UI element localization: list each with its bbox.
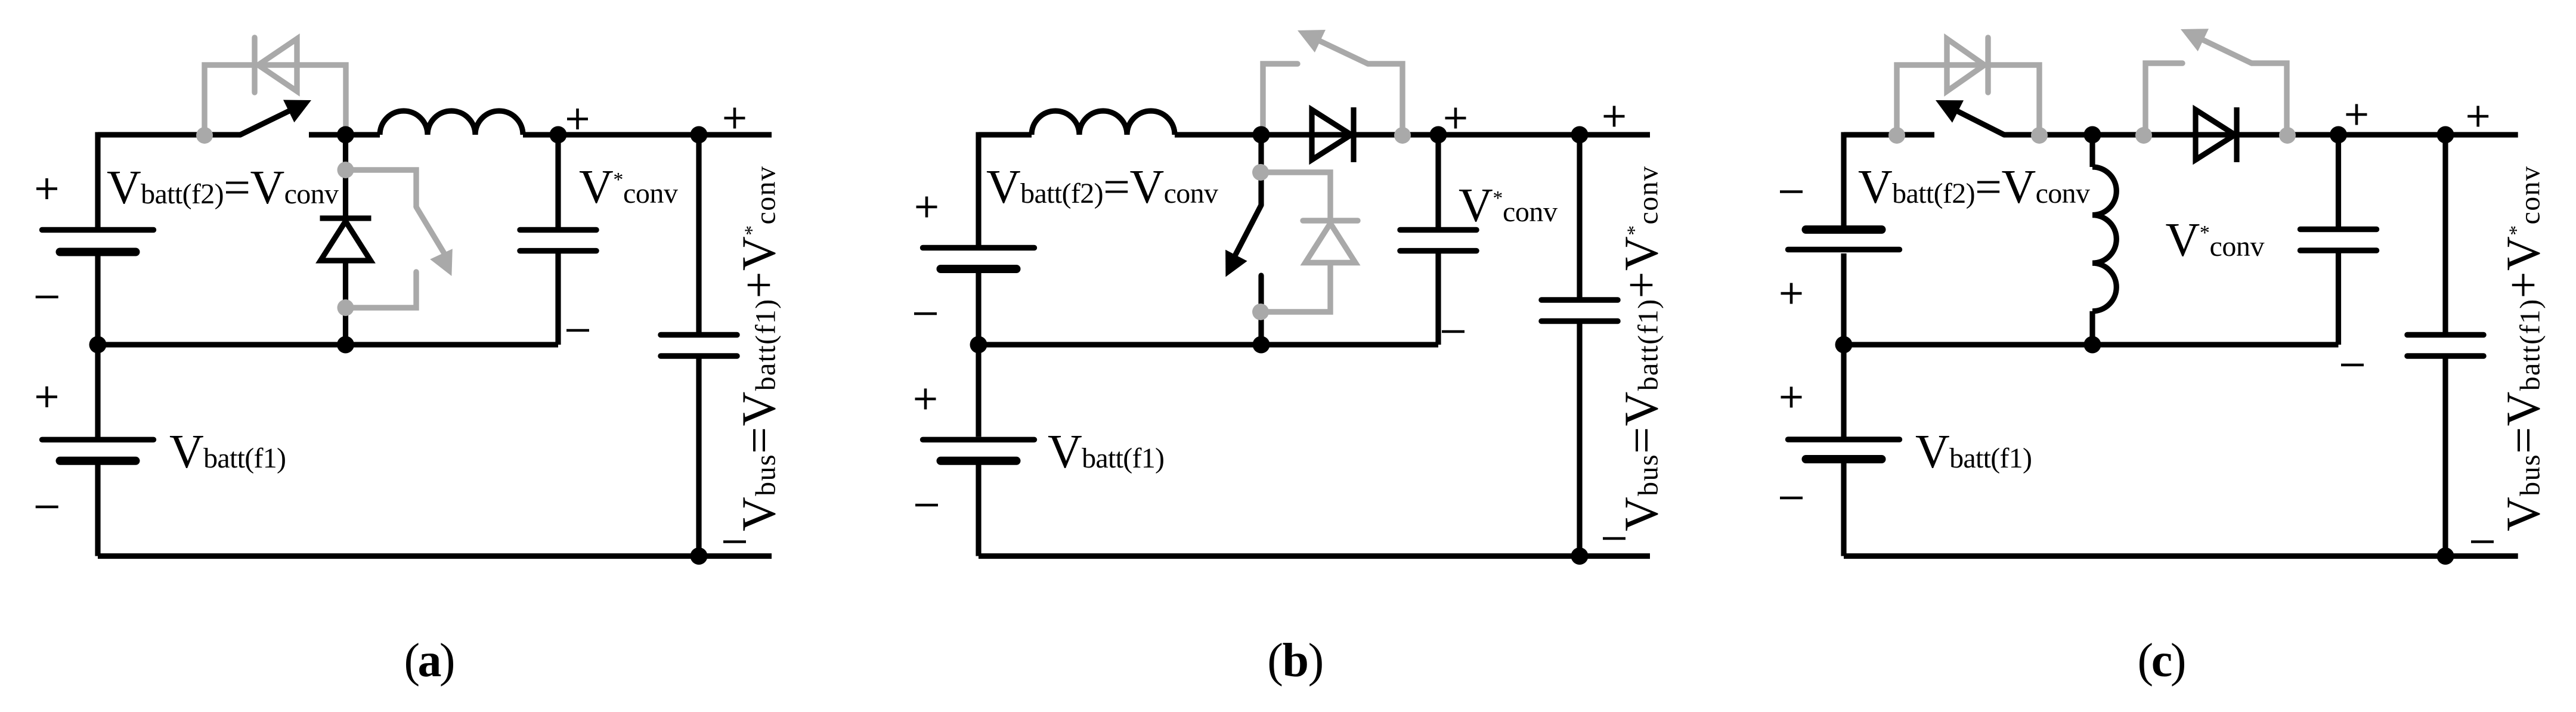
capacitor C1a top lead xyxy=(555,135,561,227)
battery B1f2 top lead wire xyxy=(95,135,100,228)
gray contact dot upper xyxy=(338,162,354,178)
node B1 rail left of diode xyxy=(1253,126,1270,144)
middle rail wire b xyxy=(979,342,1438,347)
diode branch wire upper xyxy=(343,135,348,218)
gray diode D2b lower wire xyxy=(1261,263,1330,312)
plus sign C1b xyxy=(1445,108,1466,129)
capacitor C1c plates xyxy=(2301,227,2377,233)
node A1 top of diode branch xyxy=(337,126,354,144)
minus sign battery B2f1 xyxy=(36,506,58,509)
gray switch S1b left wire xyxy=(1263,64,1298,135)
battery B2f1 bottom lead xyxy=(95,465,100,556)
gray diode D1c cathode bar xyxy=(1985,38,1990,92)
gray switch S2a blade and arrowhead xyxy=(416,207,446,256)
inductor L1c bottom stub xyxy=(2089,311,2095,345)
bus capacitor C2c bottom lead xyxy=(2442,358,2448,556)
gray contact dot lower xyxy=(338,299,354,316)
gray contact dot S2c left xyxy=(2135,127,2152,144)
battery B5f2 plates reversed xyxy=(1806,225,1882,234)
node C4 middle rail left xyxy=(1835,336,1853,354)
capacitor C1b top lead xyxy=(1435,135,1441,227)
bus capacitor C2a top lead xyxy=(696,135,701,332)
minus sign bus a xyxy=(723,540,746,543)
node A6 bus bottom xyxy=(691,547,708,565)
diode D1b cathode bar xyxy=(1351,107,1356,162)
battery B2f1 top lead xyxy=(95,345,100,437)
diode D1b triangle xyxy=(1312,110,1351,160)
minus sign battery B3f2 xyxy=(914,312,937,315)
inductor L1c xyxy=(2092,167,2116,311)
wire top rail right of inductor xyxy=(523,132,772,137)
diode D2c cathode bar xyxy=(2234,107,2239,162)
plus sign C1c xyxy=(2346,104,2367,125)
battery B2f1 plates xyxy=(42,437,154,442)
plus sign C1a xyxy=(567,109,588,129)
minus sign bus c xyxy=(2471,540,2494,543)
capacitor C1c top lead xyxy=(2336,135,2341,227)
gray diode D1a cathode bar xyxy=(252,38,257,92)
wire top rail left b xyxy=(979,132,1032,137)
gray contact dot S1b xyxy=(1394,127,1411,144)
gray switch S1b right wire xyxy=(1368,64,1402,135)
node A3 bus top xyxy=(691,126,708,144)
minus sign C1c xyxy=(2341,364,2364,367)
wire top rail left segment xyxy=(95,132,100,135)
bus capacitor C2b bottom lead xyxy=(1577,324,1582,556)
bus capacitor C2b plates xyxy=(1541,297,1618,303)
capacitor C1a plates xyxy=(520,227,596,233)
plus sign bus c xyxy=(2467,106,2488,127)
plus sign bus a xyxy=(724,108,745,129)
gray diode D1a bypass wire left xyxy=(205,65,346,135)
gray diode D1c triangle xyxy=(1947,39,1984,91)
battery B3f2 top lead xyxy=(976,132,981,246)
diode D2c triangle xyxy=(2196,110,2235,160)
gray contact dot on rail xyxy=(196,127,213,144)
svg-text:(b): (b) xyxy=(1267,634,1324,687)
gray contact dot lower b xyxy=(1252,304,1269,320)
node B3 bus top b xyxy=(1571,126,1589,144)
bus capacitor C2c plates xyxy=(2407,332,2484,338)
gray diode D1a triangle xyxy=(258,39,297,91)
minus sign C1a xyxy=(566,329,589,332)
inductor L1c top stub xyxy=(2089,135,2095,167)
node C5 middle rail inductor xyxy=(2084,336,2101,354)
diode D2a triangle xyxy=(321,221,371,261)
diode D2a cathode bar xyxy=(320,215,371,221)
node B6 bus bottom xyxy=(1571,547,1589,565)
svg-text:(c): (c) xyxy=(2138,634,2187,687)
battery B1f2 plates xyxy=(42,227,154,233)
node C3 bus top c xyxy=(2437,126,2454,144)
bottom rail wire c xyxy=(1844,553,2518,559)
minus sign battery B5f2 xyxy=(1780,190,1803,193)
wire top rail left c xyxy=(1844,132,1934,137)
plus sign battery B3f2 xyxy=(917,197,937,218)
battery B4f1 bottom lead xyxy=(976,465,981,556)
gray diode D1c bypass wire xyxy=(1897,65,2039,132)
node C6 bus bottom xyxy=(2437,547,2454,565)
minus sign C1b xyxy=(1442,330,1465,333)
gray contact dot D1c right xyxy=(2031,127,2048,144)
bottom rail wire a xyxy=(98,553,772,559)
battery B6f1 top lead xyxy=(1841,345,1846,437)
plus sign battery B4f1 xyxy=(915,389,936,410)
battery B6f1 bottom lead xyxy=(1841,463,1846,556)
gray contact dot D1c left xyxy=(1888,127,1905,144)
gray switch S2c left wire xyxy=(2145,63,2182,135)
plus sign battery B1f2 xyxy=(36,178,57,199)
battery B5f2 bottom lead xyxy=(1841,253,1846,345)
minus sign battery B6f1 xyxy=(1780,497,1803,500)
battery B1f2 bottom lead xyxy=(95,256,100,345)
node C1 inductor top xyxy=(2084,126,2101,144)
gray diode D2b triangle xyxy=(1305,224,1355,263)
gray diode D2b cathode bar xyxy=(1303,218,1358,223)
node B2 rail right of diode xyxy=(1430,126,1447,144)
battery B5f2 top lead xyxy=(1841,132,1846,226)
switch S2b upper wire xyxy=(1258,135,1264,205)
plus sign battery B2f1 xyxy=(36,386,57,407)
battery B4f1 top lead xyxy=(976,345,981,437)
node C2 cap top c xyxy=(2330,126,2347,144)
switch S1c blade and arrowhead xyxy=(1958,112,2005,135)
capacitor C1a bottom lead xyxy=(555,253,561,345)
node A5 middle rail diode xyxy=(337,336,354,354)
plus sign battery B5f2 xyxy=(1781,283,1802,304)
gray switch S1b blade and arrowhead xyxy=(1320,41,1368,64)
gray switch S2a lower wire xyxy=(346,272,417,308)
minus sign bus b xyxy=(1603,537,1626,540)
gray contact dot upper b xyxy=(1252,164,1269,181)
battery B6f1 plates xyxy=(1788,437,1900,442)
gray switch S2c blade and arrowhead xyxy=(2203,40,2252,63)
battery B4f1 plates xyxy=(923,437,1035,442)
node A4 middle rail left xyxy=(89,336,107,354)
bus capacitor C2a bottom lead xyxy=(696,358,701,556)
node B4 middle rail left xyxy=(970,336,987,354)
capacitor C1c bottom lead xyxy=(2336,253,2341,345)
diode branch wire lower xyxy=(343,261,348,345)
bus capacitor C2c top lead xyxy=(2442,135,2448,332)
switch S1a blade and arrowhead xyxy=(240,111,289,135)
bottom rail wire b xyxy=(979,553,1650,559)
bus capacitor C2a plates xyxy=(661,332,737,338)
gray diode D2b upper wire xyxy=(1261,172,1330,221)
node A2 inductor output xyxy=(550,126,567,144)
plus sign battery B6f1 xyxy=(1781,387,1802,408)
wire top rail under arrow to node xyxy=(309,132,380,137)
node B5 middle rail switch xyxy=(1253,336,1270,354)
gray switch S2c right wire xyxy=(2252,63,2287,135)
battery B3f2 plates xyxy=(923,245,1035,250)
switch S2b lower stub xyxy=(1258,275,1264,345)
capacitor C1b bottom lead xyxy=(1435,253,1441,345)
bus capacitor C2b top lead xyxy=(1577,135,1582,298)
middle rail wire xyxy=(98,342,558,347)
inductor L1b xyxy=(1032,111,1175,135)
inductor L1a xyxy=(380,111,523,135)
gray switch S2a upper wire xyxy=(346,170,417,207)
gray contact dot S2c right xyxy=(2279,127,2296,144)
wire top rail right c xyxy=(2004,132,2518,137)
middle rail wire c xyxy=(1844,342,2339,347)
capacitor C1b plates xyxy=(1400,227,1476,233)
switch S2b blade and arrowhead xyxy=(1236,205,1261,255)
minus sign battery B1f2 xyxy=(36,296,58,299)
minus sign battery B4f1 xyxy=(915,504,938,507)
battery B3f2 bottom lead xyxy=(976,273,981,345)
svg-text:(a): (a) xyxy=(404,634,456,687)
plus sign bus b xyxy=(1604,106,1625,127)
wire top rail right of inductor b xyxy=(1175,132,1650,137)
